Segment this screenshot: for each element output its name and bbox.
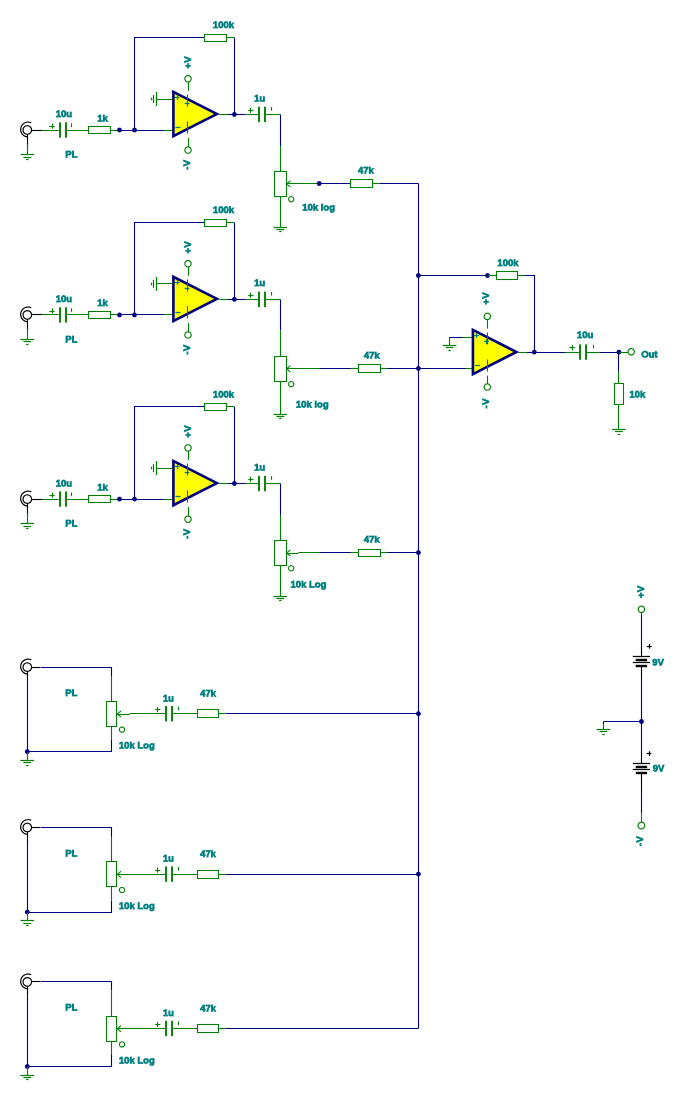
wire out to C3b — [234, 483, 245, 485]
wire ground stem J4 — [27, 752, 29, 761]
wire wiper to R1m — [321, 183, 351, 185]
resistor 10k R5 — [615, 384, 624, 405]
wire pot P6 bottom — [111, 1041, 113, 1054]
svg-text:100k: 100k — [497, 258, 519, 269]
svg-text:100k: 100k — [213, 389, 235, 400]
wire mid node to BT2 — [641, 722, 643, 754]
wire R2m out pin — [380, 368, 388, 370]
polarity - of C2a — [71, 308, 73, 312]
wire summing bus — [418, 184, 420, 1029]
wire J5 top to pot — [41, 828, 112, 837]
resistor 47k R4 — [198, 710, 219, 718]
wire ground to + U3 — [156, 468, 172, 470]
wire bus to R4f — [418, 275, 485, 277]
wire out node down — [618, 352, 620, 371]
polarity - of C5 — [178, 867, 180, 871]
wire C5 to R5 — [172, 874, 197, 876]
wire -V pin U1 — [188, 138, 190, 147]
svg-text:-V: -V — [182, 159, 193, 170]
wire down to pot P4 — [111, 676, 113, 701]
svg-text:PL: PL — [65, 688, 77, 699]
svg-text:47k: 47k — [200, 849, 217, 860]
wire J5 sleeve down — [27, 842, 29, 913]
wire R1m out pin — [372, 183, 380, 185]
svg-text:-V: -V — [481, 398, 492, 409]
svg-text:PL: PL — [65, 335, 77, 346]
ground at J6 — [21, 1076, 35, 1080]
wire J2 to C2a — [42, 314, 59, 316]
+V terminal U3 — [185, 445, 191, 451]
wire J2 sleeve to ground — [27, 329, 29, 340]
pot terminal marker P2 — [289, 382, 294, 387]
svg-text:10k log: 10k log — [302, 202, 335, 213]
wire C3a to R3a — [66, 499, 89, 501]
junction output node U4 — [532, 350, 537, 355]
wire output U1 — [228, 114, 234, 116]
wire down to pot P2 lower — [280, 331, 282, 356]
svg-text:10k Log: 10k Log — [119, 1055, 155, 1066]
wire R2a out — [110, 314, 117, 316]
polarity - of C4 — [178, 707, 180, 711]
svg-text:PL: PL — [65, 150, 77, 161]
svg-text:100k: 100k — [213, 20, 235, 31]
wire wiper to C4 — [130, 713, 165, 715]
svg-text:PL: PL — [65, 1003, 77, 1014]
ground at pot P3 — [274, 597, 288, 601]
svg-text:47k: 47k — [200, 1004, 217, 1015]
junction node in1 — [117, 128, 122, 133]
wire R4 to bus — [226, 713, 419, 715]
potentiometer 10k P4 — [107, 702, 130, 727]
svg-text:+V: +V — [636, 585, 647, 598]
+V supply terminal — [638, 606, 644, 612]
wire J3 pin — [32, 499, 42, 501]
wire +V pin U1 — [188, 82, 190, 91]
wire C7 to out node — [600, 352, 619, 354]
polarity + of C3a — [49, 493, 54, 498]
junction feedback tap U2 — [132, 313, 137, 318]
wire R6 out pin — [219, 1028, 226, 1030]
svg-text:1u: 1u — [254, 93, 265, 104]
junction bus-ch4 — [416, 711, 421, 716]
wire output U2 — [228, 299, 234, 301]
junction R4f left node — [485, 273, 490, 278]
wire R3a out — [110, 499, 117, 501]
wire J6 sleeve down — [27, 996, 29, 1067]
wire pin C2b — [245, 299, 258, 301]
svg-text:+V: +V — [481, 292, 492, 305]
-V supply terminal — [638, 822, 645, 829]
wire wiper to R3m — [320, 552, 351, 554]
potentiometer 10k P2 — [275, 357, 299, 382]
wire R1f out — [226, 37, 234, 39]
wire BT2 bottom pin — [641, 773, 643, 791]
junction node in2 — [117, 313, 122, 318]
polarity - of C6 — [178, 1021, 180, 1025]
wire J4 pin — [32, 667, 40, 669]
wire feedback right U1 — [234, 38, 236, 115]
wire output pin U4 — [519, 352, 528, 354]
polarity - of C2b — [271, 292, 273, 296]
op-amp U4 — [473, 330, 517, 374]
polarity + of C2a — [49, 309, 54, 314]
svg-text:100k: 100k — [213, 205, 235, 216]
polarity - of C3a — [71, 493, 73, 497]
wire out to C1b — [234, 114, 245, 116]
op-amp U1 — [173, 92, 217, 136]
op-amp U3 — [173, 461, 217, 505]
wire feedback right U4 — [525, 276, 535, 353]
wire BT2 to -V — [641, 791, 643, 813]
potentiometer 10k P3 — [275, 541, 299, 566]
resistor 100k R1f — [205, 35, 227, 42]
wire C7 out pin — [586, 352, 600, 354]
svg-text:PL: PL — [65, 848, 77, 859]
svg-text:9V: 9V — [652, 657, 664, 668]
ground at +input U4 — [443, 346, 457, 351]
wire J4 top to pot — [41, 668, 112, 677]
junction output node U2 — [232, 297, 237, 302]
svg-text:10u: 10u — [56, 294, 73, 305]
wire -V terminal stem — [641, 813, 643, 823]
wire J2 sleeve — [27, 319, 29, 333]
capacitor 1u C5 — [166, 866, 172, 881]
wire output pin U1 — [219, 114, 228, 116]
wire feedback left+top U2 — [135, 223, 205, 315]
capacitor 1u C2b — [259, 292, 265, 307]
pot terminal marker P6 — [119, 1042, 124, 1047]
svg-text:10u: 10u — [56, 478, 73, 489]
wire BT2 top pin — [641, 754, 643, 764]
+V terminal U2 — [185, 261, 191, 267]
wire wiper to C5 — [130, 874, 165, 876]
wire J5 sleeve — [27, 832, 29, 842]
ground at supply mid — [597, 730, 611, 735]
wire pin C7 — [565, 352, 579, 354]
wire ground stem J6 — [27, 1067, 29, 1076]
battery 9V BT1 — [633, 657, 650, 667]
wire feedback left+top U3 — [135, 407, 205, 500]
wire pot P1 bottom — [280, 196, 282, 227]
wire ground stem J5 — [27, 912, 29, 921]
wire J1 pin — [32, 130, 42, 132]
capacitor 10u C2a — [60, 307, 66, 322]
wire C6 to R6 — [172, 1028, 197, 1030]
svg-text:1u: 1u — [254, 462, 265, 473]
resistor 47k R6 — [198, 1025, 219, 1033]
svg-text:Out: Out — [641, 350, 658, 361]
input jack J3 (PL) — [21, 491, 32, 506]
wire feedback left+top U1 — [135, 38, 205, 131]
wire pot P4 bottom — [111, 727, 113, 740]
wire C3b out — [265, 483, 280, 485]
wire J1 sleeve to ground — [27, 144, 29, 155]
wire down to pot P2 — [280, 300, 282, 331]
wire R6 to bus — [226, 1028, 419, 1030]
wire R5 to ground — [618, 404, 620, 430]
svg-text:-V: -V — [635, 835, 646, 846]
-V terminal U1 — [185, 147, 191, 153]
potentiometer 10k P1 — [275, 172, 299, 197]
wire -V pin U3 — [188, 507, 190, 516]
wire BT1 to mid node — [641, 678, 643, 722]
Out terminal — [628, 349, 634, 355]
wire R1a out — [110, 130, 117, 132]
wire R2m to bus — [388, 368, 419, 370]
wire down to pot P1 — [280, 115, 282, 147]
svg-text:1u: 1u — [163, 693, 174, 704]
pot terminal marker P1 — [289, 197, 294, 202]
resistor 47k R2m — [359, 365, 381, 373]
wire C4 to R4 — [172, 713, 197, 715]
wire wiper P1 — [298, 183, 317, 185]
potentiometer 10k P6 — [107, 1017, 130, 1042]
wire J4 sleeve — [27, 671, 29, 681]
ground at J5 — [21, 921, 35, 926]
wire BT1 top pin — [641, 646, 643, 656]
wire -V pin U4 — [487, 376, 489, 385]
polarity + of BT2 — [647, 751, 652, 756]
resistor 1k R3a — [89, 496, 111, 503]
wire J4 sleeve down — [27, 681, 29, 752]
junction output node U3 — [232, 481, 237, 486]
polarity - of C7 — [593, 345, 595, 349]
wire R1m to bus — [380, 183, 419, 185]
wire wiper to R2m — [320, 368, 351, 370]
wire pin R5 top — [618, 371, 620, 383]
junction ground node J4 — [25, 749, 30, 754]
wire feedback right U3 — [234, 407, 236, 484]
polarity + of C1a — [49, 124, 54, 129]
wire R2f out — [226, 222, 234, 224]
pot terminal marker P4 — [119, 727, 124, 732]
junction ground node J5 — [25, 910, 30, 915]
wire bottom to pot P4 — [28, 740, 112, 752]
wire down to pot P5 — [111, 837, 113, 862]
wire pot P5 bottom — [111, 887, 113, 900]
junction bus-feedback — [416, 273, 421, 278]
polarity + of C1b — [248, 108, 253, 113]
svg-text:1u: 1u — [163, 1008, 174, 1019]
wire down to pot P1 lower — [280, 146, 282, 171]
wire to inverting input U2 — [120, 314, 165, 316]
battery 9V BT2 — [633, 764, 650, 774]
input jack J6 (PL) — [21, 974, 32, 989]
-V terminal U2 — [185, 332, 191, 338]
svg-text:1u: 1u — [163, 854, 174, 865]
wire C2b out — [265, 299, 280, 301]
ground at J3 — [21, 524, 35, 529]
polarity + of C5 — [155, 868, 160, 873]
wire output U4 — [527, 352, 534, 354]
wire -V pin U2 — [188, 323, 190, 332]
wire feedback right U2 — [234, 223, 236, 300]
resistor 47k R1m — [351, 180, 373, 188]
svg-text:10u: 10u — [577, 330, 594, 341]
wire bottom to pot P6 — [28, 1055, 112, 1067]
junction bus-ch5 — [416, 872, 421, 877]
wire J1 sleeve — [27, 134, 29, 148]
input jack J5 (PL) — [21, 820, 32, 835]
wire bus to -input U4 — [418, 368, 466, 370]
wire +V pin U4 — [487, 319, 489, 328]
wire R4 out pin — [219, 713, 226, 715]
svg-text:10u: 10u — [56, 109, 73, 120]
junction node in3 — [117, 497, 122, 502]
capacitor 10u C3a — [60, 491, 66, 506]
wire ground drop — [603, 722, 605, 725]
wire pin - U3 — [164, 499, 172, 501]
svg-text:10k log: 10k log — [296, 400, 329, 411]
wire wiper P3 — [298, 552, 319, 554]
input jack J2 (PL) — [21, 307, 32, 322]
polarity - of C1a — [71, 123, 73, 127]
resistor 100k R2f — [205, 220, 227, 227]
polarity + of C2b — [248, 293, 253, 298]
capacitor 1u C1b — [259, 107, 265, 122]
ground at J2 — [21, 340, 35, 345]
svg-text:47k: 47k — [364, 535, 381, 546]
svg-text:47k: 47k — [200, 689, 217, 700]
wire pin - U2 — [164, 314, 172, 316]
capacitor 1u C3b — [259, 476, 265, 491]
ground at +input U2 — [152, 277, 157, 291]
svg-text:+V: +V — [183, 56, 194, 69]
wire J3 sleeve to ground — [27, 513, 29, 524]
op-amp U2 — [173, 277, 217, 321]
polarity - of C1b — [271, 107, 273, 111]
polarity + of C6 — [155, 1022, 160, 1027]
wire ground stem supply — [603, 725, 605, 730]
svg-text:1u: 1u — [254, 278, 265, 289]
ground at +input U1 — [152, 92, 157, 106]
junction wiper node P1 — [317, 181, 322, 186]
wire R5 to bus — [226, 874, 419, 876]
wire R3m to bus — [388, 552, 419, 554]
svg-text:9V: 9V — [653, 764, 665, 775]
junction bus-ch3 — [416, 550, 421, 555]
wire pot P3 bottom — [280, 566, 282, 597]
junction out node — [617, 350, 622, 355]
ground at pot P2 — [274, 415, 288, 419]
svg-text:47k: 47k — [364, 350, 381, 361]
wire R3m out pin — [380, 552, 388, 554]
capacitor 10u C7 — [580, 344, 586, 359]
junction supply mid node — [639, 719, 644, 724]
wire down to pot P6 — [111, 991, 113, 1016]
junction output node U1 — [232, 112, 237, 117]
wire R5 out pin — [219, 874, 226, 876]
wire J5 pin — [32, 827, 40, 829]
wire J6 pin — [32, 981, 40, 983]
wire pin R2m — [351, 368, 359, 370]
svg-text:1k: 1k — [97, 113, 108, 124]
wire down to pot P3 lower — [280, 515, 282, 540]
svg-text:47k: 47k — [358, 166, 375, 177]
svg-text:PL: PL — [65, 519, 77, 530]
junction feedback tap U3 — [132, 497, 137, 502]
polarity + of C3b — [248, 477, 253, 482]
resistor 1k R1a — [89, 127, 111, 134]
wire wiper P2 — [298, 368, 319, 370]
wire pin R3m — [351, 552, 359, 554]
wire bottom to pot P5 — [28, 901, 112, 913]
wire J2 pin — [32, 314, 42, 316]
wire R3f out — [226, 406, 234, 408]
capacitor 10u C1a — [60, 122, 66, 137]
wire J1 to C1a — [42, 130, 59, 132]
svg-text:1k: 1k — [97, 298, 108, 309]
wire out to C2b — [234, 299, 245, 301]
svg-text:-V: -V — [182, 344, 193, 355]
wire +V to BT1 — [641, 615, 643, 646]
wire output U3 — [228, 483, 234, 485]
wire wiper to C6 — [130, 1028, 165, 1030]
svg-text:-V: -V — [182, 528, 193, 539]
wire C2a to R2a — [66, 314, 89, 316]
svg-text:10k Log: 10k Log — [291, 579, 327, 590]
wire pot P2 bottom — [280, 381, 282, 414]
resistor 100k R4f — [497, 272, 518, 280]
resistor 47k R5 — [198, 871, 219, 879]
-V terminal U3 — [185, 516, 191, 522]
wire to inverting input U1 — [120, 130, 165, 132]
wire output pin U3 — [219, 483, 228, 485]
wire J6 top to pot — [41, 982, 112, 991]
-V terminal U4 — [484, 384, 490, 390]
wire C1b out — [265, 114, 280, 116]
wire pin - U4 — [466, 368, 472, 370]
pot terminal marker P3 — [289, 566, 294, 571]
capacitor 1u C4 — [166, 706, 172, 721]
wire out to C7 — [534, 352, 565, 354]
capacitor 1u C6 — [166, 1021, 172, 1036]
junction feedback tap U1 — [132, 128, 137, 133]
wire R4f pin — [488, 275, 497, 277]
wire pin C3b — [245, 483, 258, 485]
ground at J1 — [21, 155, 35, 160]
junction ground node J6 — [25, 1064, 30, 1069]
wire +V pin U3 — [188, 451, 190, 460]
wire to inverting input U3 — [120, 499, 165, 501]
wire BT1 bottom pin — [641, 666, 643, 678]
ground at +input U3 — [152, 461, 157, 475]
svg-text:10k Log: 10k Log — [119, 901, 155, 912]
resistor 47k R3m — [359, 550, 381, 557]
wire pin - U1 — [164, 130, 172, 132]
wire down to pot P3 — [280, 484, 282, 516]
wire R4f out pin — [518, 275, 525, 277]
polarity + of C7 — [570, 345, 575, 350]
+V terminal U1 — [185, 76, 191, 82]
wire +V pin U2 — [188, 267, 190, 276]
polarity + of C4 — [155, 707, 160, 712]
svg-text:10k: 10k — [629, 389, 646, 400]
wire ground stem U4 — [449, 337, 451, 345]
input jack J1 (PL) — [21, 122, 32, 137]
wire J6 sleeve — [27, 986, 29, 996]
+V terminal U4 — [484, 313, 490, 319]
input jack J4 (PL) — [21, 659, 32, 674]
wire J3 to C3a — [42, 499, 59, 501]
wire + input U4 — [449, 337, 462, 339]
junction bus-ch2 — [416, 366, 421, 371]
ground at R5 — [612, 430, 626, 435]
wire ground to + U2 — [156, 283, 172, 285]
wire mid node left — [604, 721, 642, 723]
svg-text:1k: 1k — [97, 482, 108, 493]
wire pin + U4 — [462, 337, 472, 339]
